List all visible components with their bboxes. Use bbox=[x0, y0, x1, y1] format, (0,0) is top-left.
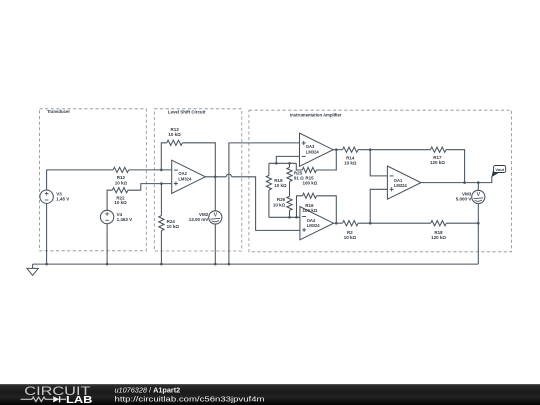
resistor R15 bbox=[296, 150, 336, 186]
junction ground line-bus bbox=[228, 263, 231, 266]
op-amp OA4 bbox=[300, 207, 334, 240]
voltmeter VM3 bbox=[456, 190, 485, 203]
svg-text:u1076328 / A1part2: u1076328 / A1part2 bbox=[115, 385, 181, 394]
op-amp OA2 bbox=[172, 160, 206, 193]
wire VM3 bottom to bus bbox=[477, 203, 479, 264]
op-amp OA3 bbox=[300, 133, 334, 166]
wire VM2 top bbox=[214, 177, 216, 211]
footer title text bbox=[115, 385, 181, 394]
node row top gain network bbox=[269, 162, 296, 164]
section box Level Shift Circuit bbox=[154, 109, 242, 251]
junction V3-bus bbox=[45, 263, 48, 266]
resistor R24 bbox=[159, 184, 180, 265]
resistor R22 bbox=[112, 188, 128, 206]
resistor R25 bbox=[287, 163, 304, 181]
voltage source V4 bbox=[100, 210, 132, 223]
wire to OA1 non-inverting input bbox=[370, 189, 387, 223]
wire R22 to OA2 non-inverting input bbox=[128, 184, 172, 191]
wire V4 top to R22 bbox=[107, 190, 112, 210]
node Vout bbox=[491, 166, 505, 178]
svg-text:LAB: LAB bbox=[66, 395, 92, 405]
wire R2 to R18 bbox=[358, 222, 431, 224]
resistor R18 bbox=[431, 221, 447, 240]
resistor R2 bbox=[343, 221, 359, 240]
wire R17 to output bbox=[446, 150, 465, 183]
wire VM2 bottom to bus bbox=[214, 224, 216, 264]
CircuitLab logo wire resistor diode bbox=[21, 396, 66, 402]
ground bus wire bbox=[33, 263, 479, 265]
junction OA1 inverting node bbox=[369, 148, 372, 151]
wire OA3 non-inverting to ground bus bbox=[229, 143, 300, 264]
resistor R19 bbox=[266, 163, 287, 217]
junction R18-VM3 line bbox=[477, 222, 480, 225]
junction R16 node bbox=[295, 216, 298, 219]
junction OA3 inverting node bbox=[275, 162, 278, 165]
wire R14 to R17 node bbox=[358, 149, 430, 151]
CircuitLab logo CIRCUIT bbox=[24, 384, 91, 398]
junction R17-output bbox=[463, 181, 466, 184]
op-amp OA1 bbox=[387, 166, 421, 199]
wire R13 left to inverting node bbox=[161, 143, 167, 170]
voltmeter VM2 bbox=[189, 211, 222, 224]
junction OA1 non-inverting node bbox=[369, 222, 372, 225]
wire OA2 output bbox=[205, 174, 300, 230]
resistor R12 bbox=[113, 167, 129, 185]
svg-text:http://circuitlab.com/c56n33jp: http://circuitlab.com/c56n33jpvuf4m bbox=[115, 394, 265, 403]
ground bbox=[27, 264, 38, 275]
junction R24-bus bbox=[160, 263, 163, 266]
wire V3 top to R12 row bbox=[47, 170, 114, 190]
wire OA3 inverting input bbox=[276, 156, 299, 163]
section box Transducer bbox=[40, 109, 147, 251]
wire R12 to OA2 inverting input bbox=[129, 169, 172, 171]
wire OA4 output to R2 bbox=[334, 222, 343, 224]
section box Instrumentation Amplifier bbox=[249, 110, 512, 252]
junction VM3 top bbox=[477, 181, 480, 184]
wire OA3 output to R14 bbox=[333, 149, 342, 151]
junction R25 top bbox=[288, 162, 291, 165]
wire R18 to VM3 line bbox=[446, 222, 478, 224]
voltage source V3 bbox=[40, 190, 69, 203]
junction R26 bottom bbox=[288, 216, 291, 219]
resistor R16 bbox=[297, 193, 337, 223]
junction R13 feedback node bbox=[160, 169, 163, 172]
resistor R13 bbox=[167, 127, 183, 145]
node row bottom gain network bbox=[269, 216, 300, 218]
wire V3 bottom to bus bbox=[46, 203, 48, 264]
wire R13 right to OA2 output bbox=[182, 143, 215, 177]
junction OA4 output node bbox=[335, 222, 338, 225]
wire to OA1 inverting input bbox=[370, 150, 387, 176]
wire R25-R26 bbox=[289, 181, 291, 196]
resistor R26 bbox=[273, 196, 292, 217]
wire V4 bottom to bus bbox=[106, 224, 108, 264]
CircuitLab logo LAB bbox=[66, 395, 92, 405]
footer url text bbox=[115, 394, 265, 403]
junction V4-bus bbox=[106, 263, 109, 266]
wire VM3 top bbox=[477, 183, 479, 191]
resistor R14 bbox=[343, 147, 359, 165]
wire OA1 output row bbox=[421, 177, 492, 183]
junction OA2 output node bbox=[214, 176, 217, 179]
junction OA3 output node bbox=[335, 148, 338, 151]
junction VM2-bus bbox=[214, 263, 217, 266]
junction R24 node bbox=[160, 182, 163, 185]
resistor R17 bbox=[430, 147, 446, 165]
